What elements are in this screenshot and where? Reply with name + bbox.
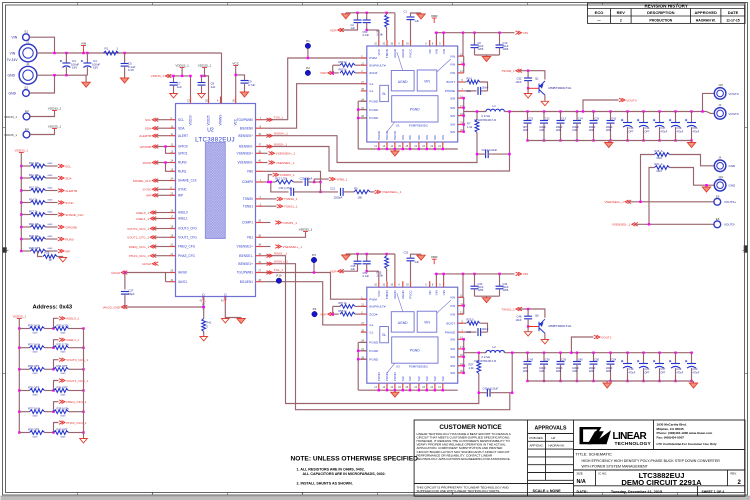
net label ISNS1-_1: [267, 251, 288, 257]
wire FREQ_CFG_1 to U2: [154, 246, 170, 248]
svg-text:2200pF: 2200pF: [334, 195, 343, 199]
svg-text:R12 7.32k: R12 7.32k: [275, 177, 288, 181]
svg-text:J1: J1: [26, 40, 30, 44]
wire Q1 emitter down: [544, 95, 546, 100]
svg-text:R30 4.32k: R30 4.32k: [57, 323, 70, 327]
svg-text:ZCD#: ZCD#: [369, 71, 377, 75]
svg-text:SW: SW: [425, 135, 429, 140]
wire rail to R11: [21, 177, 30, 179]
svg-text:OPT: OPT: [661, 371, 666, 374]
net label ISNS1+_1: [267, 259, 289, 265]
junction: [478, 352, 480, 354]
svg-text:ASEL0: ASEL0: [178, 211, 188, 215]
svg-text:VOUT1_CFG_1: VOUT1_CFG_1: [66, 379, 88, 383]
U3 bottom pin names: [377, 371, 445, 381]
junction: [235, 74, 237, 76]
svg-text:LTC Confidential-For Customer: LTC Confidential-For Customer Use Only: [657, 442, 717, 446]
junction: [543, 110, 545, 112]
net label SDA: [58, 176, 72, 180]
junction: [462, 32, 464, 34]
U1 bottom pin names: [377, 130, 445, 140]
capacitor C20 220pF: [305, 178, 308, 186]
svg-text:0.17uH: 0.17uH: [482, 114, 491, 118]
net label VDR U3b: [330, 269, 344, 273]
svg-text:FDMF5820DC: FDMF5820DC: [409, 124, 429, 128]
power flag VDD25_1 E4: [48, 124, 62, 128]
svg-text:1uF: 1uF: [177, 85, 182, 89]
junction: [463, 123, 465, 125]
svg-text:VIN: VIN: [435, 49, 439, 54]
svg-text:PGND: PGND: [410, 349, 420, 353]
wire SW to L U1: [464, 111, 486, 113]
wire C1 top: [411, 13, 422, 17]
wire C7 top lead: [173, 76, 175, 83]
wire VDR tie U1: [332, 65, 334, 73]
wire Q6 emitter down: [544, 333, 546, 338]
net label VSENSE0-_1 at U2: [269, 161, 295, 165]
U1 right pin stubs: [458, 56, 464, 132]
wire C16 top lead: [643, 112, 645, 123]
svg-text:SW: SW: [425, 376, 429, 381]
U2 top pin numbers: [187, 100, 236, 103]
wire TG0 to U1 PWM: [263, 58, 367, 120]
wire U3 PGND return b: [358, 350, 367, 352]
resistor R60 1k: [340, 71, 355, 75]
junction: [674, 110, 676, 112]
resistor R17 2k: [31, 213, 46, 217]
svg-text:SCL: SCL: [178, 118, 184, 122]
resistor R1: [104, 51, 119, 55]
junction: [434, 148, 436, 150]
net label RUN0 at U2: [143, 161, 159, 165]
svg-text:FB0: FB0: [247, 170, 253, 174]
power flag VIN: [81, 41, 86, 52]
test point P2: [305, 66, 310, 76]
ground C52q: [524, 93, 532, 98]
resistor R41: [202, 319, 206, 332]
wire Q1 base red: [528, 87, 538, 89]
wire R12 to C20: [294, 181, 303, 183]
junction: [576, 110, 578, 112]
wire VOUT1 label branch: [571, 337, 593, 353]
U2 left pin names: [178, 118, 198, 284]
wire C18 top lead: [675, 112, 677, 123]
customer notice footer: [417, 485, 510, 493]
capacitor C9: [241, 81, 249, 84]
svg-text:0603: 0603: [33, 332, 39, 334]
svg-text:SW: SW: [408, 135, 412, 140]
svg-text:ISNS0+_1: ISNS0+_1: [274, 132, 288, 136]
U1 left pin names: [369, 56, 386, 120]
svg-text:VIN: VIN: [450, 63, 455, 67]
connector J1 VIN: [19, 40, 37, 62]
junction: [386, 148, 388, 150]
svg-text:R26: R26: [45, 251, 50, 255]
svg-text:IAVG0: IAVG0: [111, 271, 120, 275]
resistor R26 1K: [43, 255, 57, 259]
wire FB0 down to node: [263, 171, 321, 192]
svg-text:SW: SW: [450, 338, 455, 342]
svg-text:TSNS0: TSNS0: [243, 197, 253, 201]
junction: [559, 352, 561, 354]
wire C23 bottom lead: [527, 123, 529, 140]
junction: [609, 110, 611, 112]
svg-text:R57 1k: R57 1k: [339, 301, 348, 305]
capacitor C15 OPT: [621, 119, 632, 127]
junction: [592, 110, 594, 112]
wire R39 to R40: [45, 432, 54, 434]
junction: [476, 110, 478, 112]
wire R2 to TMON: [386, 28, 388, 41]
net label ASEL0_1: [59, 317, 80, 321]
svg-text:TG1/PWM1: TG1/PWM1: [237, 271, 254, 275]
wire C52q to ground: [527, 88, 529, 92]
wire C52 top: [366, 254, 368, 261]
junction: [442, 32, 444, 34]
svg-text:R59 1k: R59 1k: [339, 60, 348, 64]
svg-text:R9: R9: [354, 187, 358, 191]
svg-text:SHEET 1 OF 4: SHEET 1 OF 4: [702, 490, 725, 494]
wire COMP0 stub: [263, 181, 276, 183]
svg-text:VOUT1_CFG_1: VOUT1_CFG_1: [127, 236, 149, 240]
ground C7: [170, 93, 178, 98]
wire node to net ASEL0_1: [54, 318, 59, 328]
ground Q6: [541, 339, 549, 344]
wire C34 bot lead: [499, 289, 501, 296]
junction: [626, 139, 628, 141]
capacitor C52: [363, 261, 371, 264]
svg-text:VIN: VIN: [10, 52, 16, 56]
resistor R19 10k: [31, 225, 46, 229]
svg-text:SHARE_CLK: SHARE_CLK: [178, 179, 198, 183]
net label VDR U3a: [320, 312, 334, 316]
svg-text:7V-14V: 7V-14V: [7, 58, 19, 62]
net label VSENSE0+_1 right: [375, 190, 402, 194]
junction: [435, 32, 437, 34]
svg-text:R19 10k: R19 10k: [29, 222, 40, 226]
capacitor C12 100uF: [540, 121, 548, 124]
net label ASEL1_1 at U2: [136, 217, 156, 221]
junction: [576, 352, 578, 354]
svg-text:1206: 1206: [556, 129, 562, 132]
wire bank2 bottom rail: [528, 380, 694, 382]
wire E2 to GND rail: [30, 75, 55, 93]
capacitor C10: [496, 45, 504, 48]
capacitor C60 470uF: [685, 360, 696, 368]
svg-text:TSNS0_1: TSNS0_1: [284, 197, 298, 201]
wire R37 to R38: [45, 411, 54, 413]
wire R58 to ZCD: [355, 313, 361, 315]
junction: [20, 201, 22, 203]
connector J19 GND: [714, 175, 726, 191]
U3 left pin names: [369, 297, 386, 361]
wire comp lower branch: [271, 182, 289, 192]
wire C2 bottom: [342, 23, 358, 30]
wire node to C21: [321, 191, 339, 193]
wire VIN top pin a U3: [435, 274, 437, 281]
svg-text:FB1: FB1: [247, 236, 253, 240]
svg-text:P2: P2: [306, 66, 310, 70]
svg-text:SDA: SDA: [145, 127, 152, 131]
wire R33 to R34: [45, 368, 54, 370]
wire C7 bottom lead: [173, 85, 175, 92]
svg-text:VDR: VDR: [320, 71, 327, 75]
svg-text:0.17uH: 0.17uH: [482, 355, 491, 359]
svg-text:R34 OPT: R34 OPT: [57, 364, 69, 368]
svg-text:U1: U1: [396, 124, 400, 128]
wire R59 to EN: [355, 64, 361, 66]
svg-text:1206: 1206: [572, 370, 578, 373]
net label VOUT0: [619, 98, 637, 102]
net label SDA at U2: [145, 126, 159, 130]
net label VIN U1: [516, 31, 528, 35]
wire C28 bottom lead: [675, 368, 677, 381]
wire C27 bottom lead: [124, 294, 126, 307]
net label IAVG0 upper: [142, 262, 158, 266]
resistor R13 10k: [31, 189, 46, 193]
net label PHAS_CFG_1 at U2: [129, 254, 156, 258]
wire SW tie U3: [463, 339, 465, 373]
capacitor C25 0.22uF: [486, 150, 489, 158]
connector J1 labels: [7, 52, 19, 63]
svg-text:PHASE: PHASE: [445, 330, 456, 334]
wire VIN top pin a U1: [435, 33, 437, 40]
net label IAVG0: [111, 271, 127, 275]
svg-text:24.9k: 24.9k: [377, 274, 384, 278]
junction: [313, 271, 315, 273]
wire C57 top lead: [659, 353, 661, 364]
U2 top pin stubs: [191, 97, 236, 104]
wire GND rail: [37, 74, 88, 76]
net label FREQ_CFG_1: [59, 400, 87, 404]
svg-text:R13 10k: R13 10k: [29, 185, 40, 189]
svg-text:PGND: PGND: [369, 349, 379, 353]
capacitor C26 OPT: [637, 360, 648, 368]
wire VOUTS+ run: [629, 201, 714, 203]
svg-text:470uF: 470uF: [629, 371, 636, 374]
svg-text:BOOT: BOOT: [446, 80, 455, 84]
ground address bank: [80, 438, 88, 443]
junction: [200, 75, 202, 77]
wire IAVG_GND down: [203, 304, 205, 319]
junction: [20, 177, 22, 179]
connector J4 GND: [714, 156, 726, 172]
svg-text:470uF: 470uF: [677, 130, 684, 133]
wire R7 top lead: [476, 112, 478, 120]
svg-text:L2: L2: [493, 345, 497, 349]
notes text: [297, 468, 386, 486]
junction: [366, 270, 368, 272]
junction: [609, 352, 611, 354]
junction: [463, 305, 465, 307]
svg-text:SW: SW: [417, 376, 421, 381]
svg-text:VCC: VCC: [377, 289, 381, 296]
svg-text:VDR: VDR: [431, 14, 438, 18]
ground C31: [417, 254, 425, 260]
svg-text:R7: R7: [467, 122, 471, 126]
junction: [357, 117, 359, 119]
wire rail to R14: [21, 202, 30, 204]
terminal E1: [23, 30, 30, 41]
wire C25 to rail: [488, 112, 509, 155]
svg-text:IC NO.: IC NO.: [599, 472, 608, 476]
wire C4 bottom lead: [86, 67, 88, 75]
svg-text:E3: E3: [25, 109, 29, 113]
wire R32 to gnd rail: [69, 347, 84, 349]
junction: [582, 110, 584, 112]
junction: [82, 431, 84, 433]
svg-text:0603: 0603: [48, 248, 54, 250]
svg-text:VCC: VCC: [234, 118, 238, 125]
wire VOUT0_CFG_1 to U2: [154, 228, 170, 230]
wire C14 bottom lead: [576, 123, 578, 140]
svg-text:SW: SW: [450, 96, 455, 100]
svg-text:SW: SW: [450, 106, 455, 110]
capacitor C31: [407, 258, 415, 261]
svg-text:PGND: PGND: [393, 130, 397, 140]
svg-text:PGND: PGND: [410, 108, 420, 112]
svg-text:SW: SW: [450, 114, 455, 118]
wire SHARE_CLK to U2: [156, 180, 170, 182]
wire SYNC to U2: [156, 188, 170, 190]
svg-text:E2: E2: [25, 86, 29, 90]
wire C2 top: [357, 13, 359, 20]
U2 right pin stubs: [256, 120, 263, 282]
junction: [52, 347, 54, 349]
wire C8 bottom lead: [201, 85, 203, 92]
svg-text:DEMO CIRCUIT 2291A: DEMO CIRCUIT 2291A: [621, 478, 702, 487]
svg-text:C21: C21: [330, 187, 335, 191]
junction: [442, 148, 444, 150]
junction: [576, 139, 578, 141]
svg-text:VDR: VDR: [431, 255, 438, 259]
svg-text:ASEL1_1: ASEL1_1: [66, 338, 79, 342]
wire VDD33_1 pullup rail: [20, 153, 22, 252]
net label SYNC at U2: [142, 188, 158, 192]
svg-text:VNANS: VNANS: [219, 115, 223, 126]
ground R26: [59, 257, 67, 262]
size and part number row: [577, 471, 742, 487]
wire to J18: [703, 93, 715, 111]
svg-text:0603: 0603: [33, 416, 39, 418]
wire VIN rail U1: [435, 32, 515, 34]
svg-text:ALL CAPACITORS ARE IN MICROFAR: ALL CAPACITORS ARE IN MICROFARADS, 0402.: [303, 472, 386, 476]
test point P10: [276, 274, 282, 284]
wire C57 bottom lead: [659, 368, 661, 381]
svg-text:1206: 1206: [523, 129, 529, 132]
junction: [498, 32, 500, 34]
svg-text:VOUT1: VOUT1: [601, 335, 612, 339]
svg-text:BG0/EN0: BG0/EN0: [240, 126, 254, 130]
svg-text:1206: 1206: [556, 370, 562, 373]
svg-text:0603: 0603: [33, 373, 39, 375]
wire rail to R13: [21, 190, 30, 192]
wire R35 to R36: [45, 390, 54, 392]
svg-text:1206: 1206: [539, 129, 545, 132]
wire VCC pin up U1: [378, 30, 380, 40]
svg-text:SW: SW: [450, 364, 455, 368]
junction: [463, 97, 465, 99]
svg-text:1206: 1206: [606, 129, 612, 132]
U2 die pad hatch: [205, 143, 225, 239]
capacitor C17 470uF: [653, 119, 664, 127]
svg-text:RUN0: RUN0: [143, 161, 152, 165]
net label VDR U1b: [330, 28, 344, 32]
capacitor C28 470uF: [669, 360, 680, 368]
svg-text:SIZE: SIZE: [577, 472, 583, 476]
junction: [592, 139, 594, 141]
wire C6 bot lead: [474, 48, 476, 55]
resistor R5 0: [467, 80, 480, 84]
svg-text:R31 24.9k: R31 24.9k: [28, 343, 41, 347]
wire C36 to node: [481, 331, 488, 333]
svg-text:ISNS0-_1: ISNS0-_1: [274, 142, 288, 146]
svg-text:EN/FAULT#: EN/FAULT#: [369, 305, 386, 309]
wire C27 top lead: [124, 273, 126, 290]
wire rail to R20: [21, 238, 30, 240]
svg-text:100nF: 100nF: [482, 87, 489, 90]
capacitor C35: [354, 261, 362, 264]
wire VOUT0 rail: [504, 111, 706, 113]
svg-text:PGND: PGND: [369, 99, 379, 103]
junction: [378, 389, 380, 391]
wire R41 to ground: [203, 332, 205, 336]
wire TSNS0 to Q1: [520, 71, 545, 80]
junction: [526, 352, 528, 354]
net label SYNC: [58, 201, 75, 205]
junction: [609, 380, 611, 382]
svg-text:NC: NC: [428, 289, 432, 294]
svg-text:R35 OPT: R35 OPT: [28, 385, 40, 389]
svg-text:VIN: VIN: [450, 71, 455, 75]
capacitor C50 100uF: [590, 362, 598, 365]
svg-text:R17 2k: R17 2k: [29, 209, 38, 213]
svg-text:GPIO0B: GPIO0B: [65, 225, 77, 229]
ground bank1 b: [687, 141, 695, 148]
svg-text:2. INSTALL SHUNTS AS SHOWN.: 2. INSTALL SHUNTS AS SHOWN.: [297, 482, 353, 486]
junction: [511, 392, 513, 394]
wire U1 PGND return b: [358, 109, 367, 111]
net label GPIO0B at U2: [140, 145, 159, 149]
wire C26 bottom lead: [643, 368, 645, 381]
net label SCL at U2: [145, 118, 158, 122]
transistor Q1 MMBT3906LT1G: [539, 81, 545, 95]
svg-text:APP ENG.: APP ENG.: [530, 444, 544, 448]
wire R57 to EN: [355, 305, 361, 307]
svg-text:R27: R27: [469, 363, 474, 367]
svg-text:REV: REV: [617, 10, 626, 15]
svg-text:REVISION HISTORY: REVISION HISTORY: [644, 4, 687, 9]
svg-text:0603: 0603: [61, 416, 67, 418]
junction: [82, 52, 84, 54]
terminal E2: [23, 86, 30, 97]
net label VOUT1: [594, 335, 612, 339]
svg-text:VIN: VIN: [450, 54, 455, 58]
wire C31 lead: [410, 261, 412, 281]
Linear Technology logo: [580, 427, 652, 447]
svg-text:VDD25_1: VDD25_1: [4, 133, 17, 137]
svg-text:VDD25_1: VDD25_1: [198, 63, 212, 67]
svg-text:PHAS_CFG: PHAS_CFG: [178, 254, 195, 258]
resistor R15 24.9k: [385, 256, 389, 269]
svg-text:VSENSE0+_1: VSENSE0+_1: [276, 152, 296, 156]
svg-text:VSENSE0-: VSENSE0-: [237, 161, 253, 165]
svg-text:SW: SW: [450, 123, 455, 127]
ground C48: [524, 331, 532, 336]
wire ISNS1- long run: [263, 256, 479, 404]
svg-text:SDA: SDA: [65, 176, 72, 180]
junction: [366, 29, 368, 31]
